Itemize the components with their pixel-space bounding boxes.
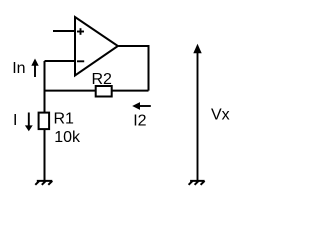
svg-text:R2: R2 (92, 71, 113, 88)
svg-text:10k: 10k (54, 129, 81, 146)
svg-text:In: In (12, 60, 25, 77)
svg-text:Vx: Vx (211, 106, 230, 123)
svg-text:I: I (13, 112, 17, 129)
svg-text:R1: R1 (54, 111, 75, 128)
svg-text:I2: I2 (133, 113, 146, 130)
